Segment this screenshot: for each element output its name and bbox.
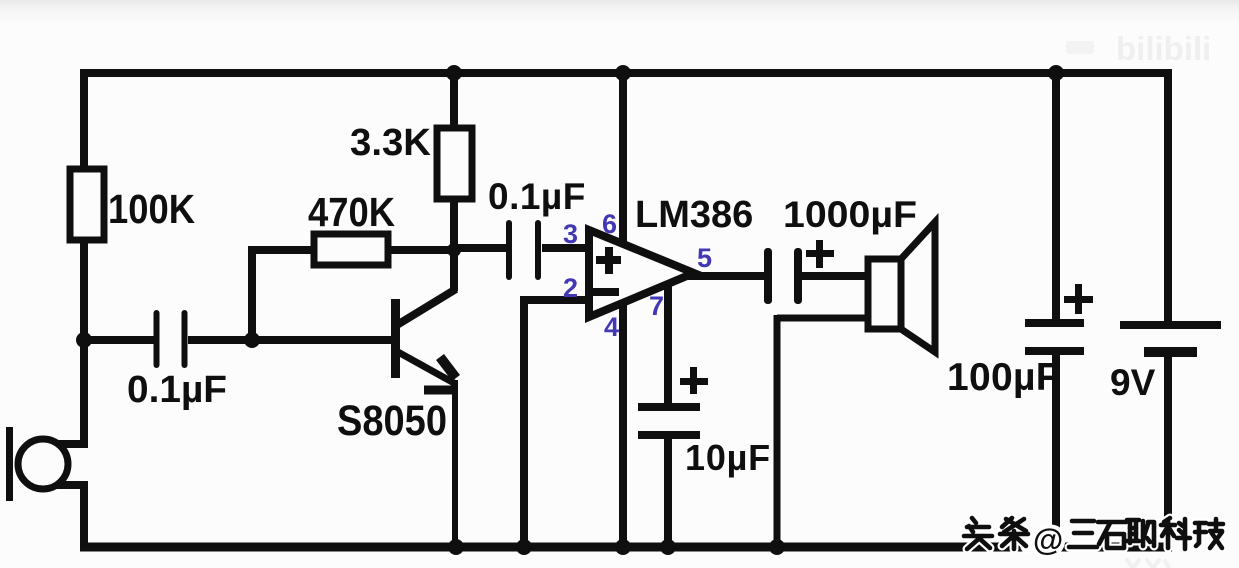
wire emitter diagonal	[398, 352, 454, 383]
resistor R1 100K	[70, 169, 104, 240]
wire pin 6 vertical	[619, 69, 627, 250]
wire node B to transistor base	[252, 336, 391, 344]
wire cap C2 to pin 3	[542, 244, 589, 252]
node top-2 junction	[615, 65, 631, 81]
capacitor C3 10uF	[638, 367, 708, 439]
node gnd-5 junction	[769, 539, 785, 555]
svg-text:0.1µF: 0.1µF	[488, 176, 586, 217]
svg-text:100µF: 100µF	[947, 356, 1060, 399]
svg-text:LM386: LM386	[635, 194, 753, 236]
svg-text:3: 3	[563, 219, 578, 249]
wire mic bottom to ground rail	[80, 481, 88, 551]
svg-text:6: 6	[602, 209, 617, 239]
svg-text:@: @	[1033, 522, 1063, 557]
wire 3.3K top lead from top rail	[450, 69, 458, 131]
node gnd-2 junction	[516, 539, 532, 555]
capacitor C5 100uF	[1025, 284, 1093, 355]
watermark credit at-sign	[1033, 525, 1065, 557]
wire battery bottom lead	[1164, 352, 1172, 551]
wire top rail	[80, 69, 1172, 77]
wire emitter vertical to ground	[452, 380, 458, 551]
wire 3.3K bottom lead to node C	[450, 198, 458, 254]
svg-text:bilibili: bilibili	[1116, 30, 1211, 67]
wire mic bottom lead	[56, 481, 88, 489]
svg-text:3.3K: 3.3K	[350, 122, 432, 164]
svg-text:5: 5	[697, 243, 712, 273]
wire 470K right lead to node C	[388, 246, 458, 254]
node input junction	[76, 332, 92, 348]
wire cap C1 to node B	[188, 336, 256, 344]
node top-1 junction	[446, 65, 462, 81]
node B junction	[244, 332, 260, 348]
wire 10uF bottom lead	[664, 437, 672, 551]
node gnd-4 junction	[660, 539, 676, 555]
wire 470K left drop to node B	[248, 246, 256, 344]
wire collector vertical	[450, 246, 458, 291]
node gnd-1 junction	[448, 539, 464, 555]
node C junction	[447, 243, 461, 257]
op-amp U1 LM386	[589, 230, 694, 317]
wire pin 5 output	[688, 272, 766, 280]
svg-text:470K: 470K	[308, 189, 395, 235]
wire left rail mid (100K to input node)	[80, 237, 88, 344]
wire 100uF bottom lead	[1052, 351, 1060, 551]
wire speaker return horizontal	[777, 315, 872, 322]
speaker SP1	[868, 222, 935, 352]
resistor R2 470K	[314, 234, 388, 265]
capacitor C4 1000uF	[764, 240, 834, 304]
svg-text:10µF: 10µF	[685, 437, 771, 478]
node top-3 junction	[1048, 65, 1064, 81]
svg-text:S8050: S8050	[337, 397, 447, 445]
wire left rail to mic top	[80, 336, 88, 448]
wire left rail upper	[80, 69, 88, 172]
wire speaker return drop	[774, 315, 781, 551]
watermark credit text halo	[964, 518, 1223, 549]
capacitor C1 0.1uF input	[154, 310, 188, 368]
capacitor C2 0.1uF coupling	[506, 220, 541, 280]
battery BT1 9V	[1120, 321, 1221, 357]
wire battery top lead	[1164, 69, 1172, 325]
transistor Q1 S8050	[391, 299, 457, 390]
wire mic top lead	[56, 440, 88, 448]
wire pin 2 ground drop	[520, 296, 528, 551]
wire cap C4 to speaker	[800, 272, 872, 280]
svg-text:2: 2	[563, 273, 578, 303]
svg-text:7: 7	[649, 291, 664, 321]
svg-text:9V: 9V	[1110, 362, 1156, 403]
svg-text:0.1µF: 0.1µF	[127, 369, 227, 411]
bilibili watermark bottom fragment	[1127, 560, 1169, 568]
svg-text:4: 4	[604, 312, 619, 342]
bilibili watermark	[1066, 30, 1211, 67]
microphone MIC	[6, 427, 68, 501]
wire input node to cap C1	[84, 336, 154, 344]
wire 470K left lead	[252, 246, 314, 254]
wire node C to cap C2	[454, 244, 506, 252]
wire bottom ground rail	[80, 543, 1172, 552]
wire 100uF top lead	[1052, 69, 1060, 322]
wire collector diagonal	[397, 289, 456, 325]
node gnd-3 junction	[615, 539, 631, 555]
resistor R3 3.3K	[437, 128, 472, 199]
wire pin 2 horizontal	[524, 296, 589, 304]
watermark credit text strokes	[964, 518, 1223, 549]
wire pin 4 vertical	[619, 303, 627, 551]
svg-text:100K: 100K	[108, 186, 195, 232]
wire pin 7 vertical	[664, 284, 672, 405]
svg-text:1000µF: 1000µF	[783, 194, 917, 235]
